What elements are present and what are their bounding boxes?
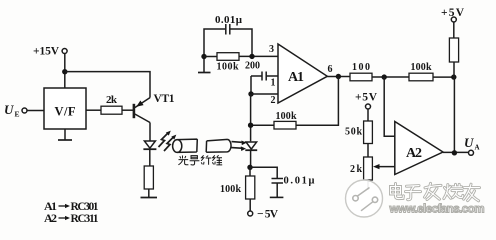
svg-text:U: U — [4, 102, 14, 117]
resistor 100 — [350, 73, 372, 81]
label 100k feedback — [276, 111, 297, 122]
svg-text:+15V: +15V — [33, 46, 60, 58]
wire feedback to node — [251, 124, 274, 126]
label pin 6 — [328, 64, 333, 75]
label pin 1 — [271, 78, 276, 89]
label VT1 — [154, 93, 175, 105]
svg-text:2k: 2k — [350, 164, 362, 175]
transistor VT1 — [134, 98, 150, 123]
label pin 2 — [271, 95, 276, 106]
LED emitter diode — [143, 141, 156, 149]
wire photodiode down — [250, 150, 252, 167]
photodiode — [245, 142, 257, 150]
label 100k right — [411, 62, 432, 73]
svg-text:E: E — [15, 110, 20, 119]
label 100k lower — [220, 184, 241, 195]
node pin3 — [249, 54, 254, 59]
wire feedback vertical — [296, 77, 338, 126]
wire node down to A2 + input — [384, 77, 395, 136]
resistor 100k (pin3) — [217, 53, 239, 61]
label A1 — [288, 70, 304, 85]
wire top rail to VT1 emitter — [65, 72, 150, 98]
resistor 100k (to -5V) — [246, 176, 255, 199]
node supply junction — [62, 69, 67, 74]
svg-text:100k: 100k — [276, 111, 297, 122]
wire A2 inverting input to pot wiper arrow — [373, 164, 395, 169]
node mid — [382, 74, 387, 79]
svg-text:RC311: RC311 — [71, 213, 99, 225]
block V/F converter — [44, 88, 86, 129]
wire to 100k lower — [249, 167, 251, 176]
wire +15V stem — [64, 54, 66, 89]
wire pin1 down to pin2 — [250, 76, 252, 94]
wire UE to V/F — [27, 110, 44, 112]
wire 50k to 2k — [367, 144, 369, 158]
note A1 RC301 — [44, 199, 99, 213]
svg-text:A2: A2 — [406, 146, 422, 161]
wire 2k to base — [122, 109, 133, 111]
label 0.01u right — [284, 176, 315, 187]
svg-text:A: A — [475, 144, 480, 152]
label 0.01u top — [215, 14, 243, 26]
svg-text:+5V: +5V — [355, 92, 378, 104]
label +5V mid — [355, 92, 378, 104]
ground at 100k — [198, 59, 211, 73]
resistor 100k (right) — [409, 73, 433, 81]
watermark logo — [346, 180, 383, 217]
svg-text:VT1: VT1 — [154, 93, 175, 105]
terminal UE input — [22, 108, 27, 113]
optical fiber cylinder 1 — [173, 139, 198, 152]
potentiometer 2k — [364, 157, 373, 180]
wire 100k to +5V node — [433, 76, 454, 78]
optical fiber cylinder 2 — [206, 139, 231, 152]
wire to -5V terminal — [249, 199, 251, 211]
svg-text:6: 6 — [328, 64, 333, 75]
watermark text inner highlight — [391, 183, 480, 200]
wire 100 to node — [372, 76, 409, 78]
light arrows from LED — [159, 131, 177, 151]
label 100k pin3 — [217, 62, 239, 73]
watermark url — [389, 203, 485, 216]
svg-text:100k: 100k — [411, 62, 432, 73]
wire pin2 column down — [250, 94, 252, 141]
label pin 3 — [269, 44, 274, 55]
svg-text:+5V: +5V — [441, 7, 465, 19]
label V/F — [55, 105, 76, 119]
ground under V/F — [58, 129, 72, 140]
svg-text:200: 200 — [245, 61, 260, 72]
label +15V — [33, 46, 60, 58]
wire +5V to resistor — [453, 22, 455, 38]
label A2 — [406, 146, 422, 161]
wire +5V to 50k — [367, 109, 369, 121]
svg-text:3: 3 — [269, 44, 274, 55]
svg-text:− 5V: − 5V — [257, 209, 279, 221]
node +5V pullup — [451, 74, 456, 79]
svg-text:U: U — [464, 135, 474, 150]
node A1 output — [336, 74, 341, 79]
label 100 — [352, 62, 370, 73]
terminal UA — [469, 150, 474, 155]
svg-text:0.01μ: 0.01μ — [215, 14, 243, 26]
svg-text:100k: 100k — [220, 184, 241, 195]
wire V/F to 2k — [86, 109, 101, 111]
resistor pullup — [449, 38, 458, 62]
wire collector to LED — [149, 123, 151, 142]
op-amp A1 — [278, 44, 327, 103]
resistor 2k (base) — [101, 106, 122, 114]
node feedback — [248, 123, 253, 128]
light arrows into photodiode — [232, 141, 247, 152]
node A2 output — [452, 150, 457, 155]
resistor (LED load) — [144, 166, 153, 189]
wire 100k to pin3 — [239, 55, 278, 57]
svg-text:100k: 100k — [217, 62, 239, 73]
wire right vertical to UA node — [453, 77, 455, 153]
terminal -5V — [248, 211, 253, 216]
resistor 100k (feedback) — [274, 121, 296, 129]
label -5V — [257, 209, 279, 221]
terminal +5V (mid) — [366, 104, 371, 109]
svg-text:www.elecfans.com: www.elecfans.com — [389, 203, 485, 216]
label guangdao fiber — [178, 155, 222, 165]
wire A1 output — [327, 76, 350, 78]
node pin2 — [248, 91, 253, 96]
capacitor pin1 — [251, 72, 278, 81]
svg-text:V/F: V/F — [55, 105, 76, 119]
label +5V top — [441, 7, 465, 19]
wire 2k down — [367, 180, 369, 190]
label UE — [4, 102, 20, 119]
resistor 50k — [364, 121, 373, 144]
label 2k — [106, 94, 118, 106]
node A1 pin3 left — [201, 54, 206, 59]
terminal +15V — [62, 49, 67, 54]
wire LED to resistor — [149, 149, 151, 166]
ground under LED resistor — [141, 189, 158, 198]
label 50k — [345, 127, 362, 138]
node below photodiode — [247, 165, 252, 170]
wire pin2 — [251, 93, 278, 95]
svg-text:2: 2 — [271, 95, 276, 106]
wire to 100k — [204, 56, 217, 58]
capacitor 0.01u (-5V filter) — [250, 167, 283, 197]
watermark text dianzifashaoyou — [391, 183, 480, 200]
svg-text:A2: A2 — [44, 211, 57, 225]
label 2k pot — [350, 164, 362, 175]
wire A2 output — [443, 151, 469, 153]
svg-text:A1: A1 — [288, 70, 304, 85]
wire output to 100 — [349, 76, 351, 78]
label UA — [464, 135, 480, 152]
svg-text:0.01μ: 0.01μ — [284, 176, 315, 187]
label 200 — [245, 61, 260, 72]
svg-text:RC301: RC301 — [71, 201, 99, 213]
svg-text:1: 1 — [271, 78, 276, 89]
capacitor C 0.01u (A1 feedback) — [204, 24, 252, 57]
svg-text:2k: 2k — [106, 94, 118, 106]
svg-text:50k: 50k — [345, 127, 362, 138]
svg-text:100: 100 — [352, 62, 370, 73]
note A2 RC311 — [44, 211, 99, 225]
wire pullup to node — [453, 62, 455, 77]
op-amp A2 — [395, 122, 443, 175]
terminal +5V (top right) — [451, 17, 456, 22]
